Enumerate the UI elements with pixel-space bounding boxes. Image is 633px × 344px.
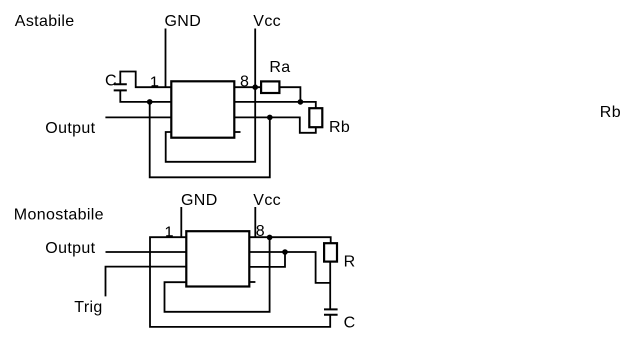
- pin 5 stub (astable): [234, 131, 240, 133]
- svg-text:C: C: [344, 315, 356, 332]
- wire C bottom plate to pin 2 (astable): [120, 90, 171, 102]
- svg-text:Ra: Ra: [269, 59, 290, 76]
- wire Vcc rail down to pin 8 (monostable): [254, 207, 256, 237]
- resistor Ra box: [261, 81, 279, 93]
- wire pin 8 line to R top (monostable): [249, 237, 330, 243]
- wire Output to pin 3 (monostable): [106, 251, 187, 253]
- pin 5 stub (monostable): [249, 281, 255, 283]
- wire pin 8 to Ra (astable): [234, 86, 261, 88]
- wire C top plate step to pin 1 line (astable): [120, 72, 171, 88]
- svg-text:Output: Output: [45, 120, 95, 137]
- svg-text:Trig: Trig: [74, 299, 102, 316]
- junction pin 2 / loop (astable): [147, 99, 153, 105]
- wire trigger-threshold loop (astable): [150, 102, 270, 177]
- junction Vcc / pin 8 (astable): [252, 84, 258, 90]
- junction pin 8 / reset loop (monostable): [267, 235, 273, 241]
- wire GND rail down to pin 1 (monostable): [180, 207, 182, 237]
- junction pin 6 line / loop (astable): [267, 115, 273, 121]
- resistor R box: [324, 243, 337, 261]
- capacitor C plates (monostable): [324, 309, 338, 314]
- IC 555 box (astable): [171, 81, 234, 137]
- junction Ra / pin 7 line (astable): [298, 99, 304, 105]
- wire GND rail down to pin 1 (astable): [165, 29, 167, 88]
- capacitor C plates (astable): [114, 84, 127, 90]
- wire R bottom down to C top plate (monostable): [329, 262, 331, 310]
- resistor Rb box: [309, 108, 322, 127]
- wire pin 6 to Rb bottom (astable): [234, 117, 315, 132]
- wire pin 1 / GND loop to C bottom (monostable): [150, 237, 330, 327]
- wire Trig to pin 2 (monostable): [106, 267, 187, 297]
- junction pins 6+7 (monostable): [282, 249, 288, 255]
- svg-text:Rb: Rb: [329, 119, 350, 136]
- svg-text:Vcc: Vcc: [253, 192, 281, 209]
- svg-text:Vcc: Vcc: [253, 13, 281, 30]
- wire pin 6 tie to pin 7 (monostable): [249, 252, 285, 267]
- svg-text:1: 1: [150, 74, 159, 91]
- svg-text:Rb: Rb: [600, 104, 621, 121]
- wire reset loop to pin 4 (monostable): [165, 237, 270, 311]
- svg-text:GND: GND: [165, 13, 202, 30]
- wire pin 7 to Rb top (astable): [234, 102, 315, 108]
- wire Vcc rail down + reset loop to pin 4 (astable): [166, 29, 256, 162]
- IC 555 box (monostable): [186, 231, 249, 286]
- svg-text:Astabile: Astabile: [15, 13, 75, 30]
- wire Output to pin 3 (astable): [105, 116, 171, 118]
- svg-text:1: 1: [164, 224, 173, 241]
- svg-text:Monostabile: Monostabile: [14, 207, 104, 224]
- svg-text:R: R: [344, 254, 356, 271]
- svg-text:GND: GND: [181, 192, 218, 209]
- wire pin 7 to R bottom tee (monostable): [249, 252, 330, 283]
- svg-text:Output: Output: [45, 240, 95, 257]
- wire Ra to discharge line (astable): [279, 87, 300, 102]
- svg-text:C: C: [105, 73, 117, 90]
